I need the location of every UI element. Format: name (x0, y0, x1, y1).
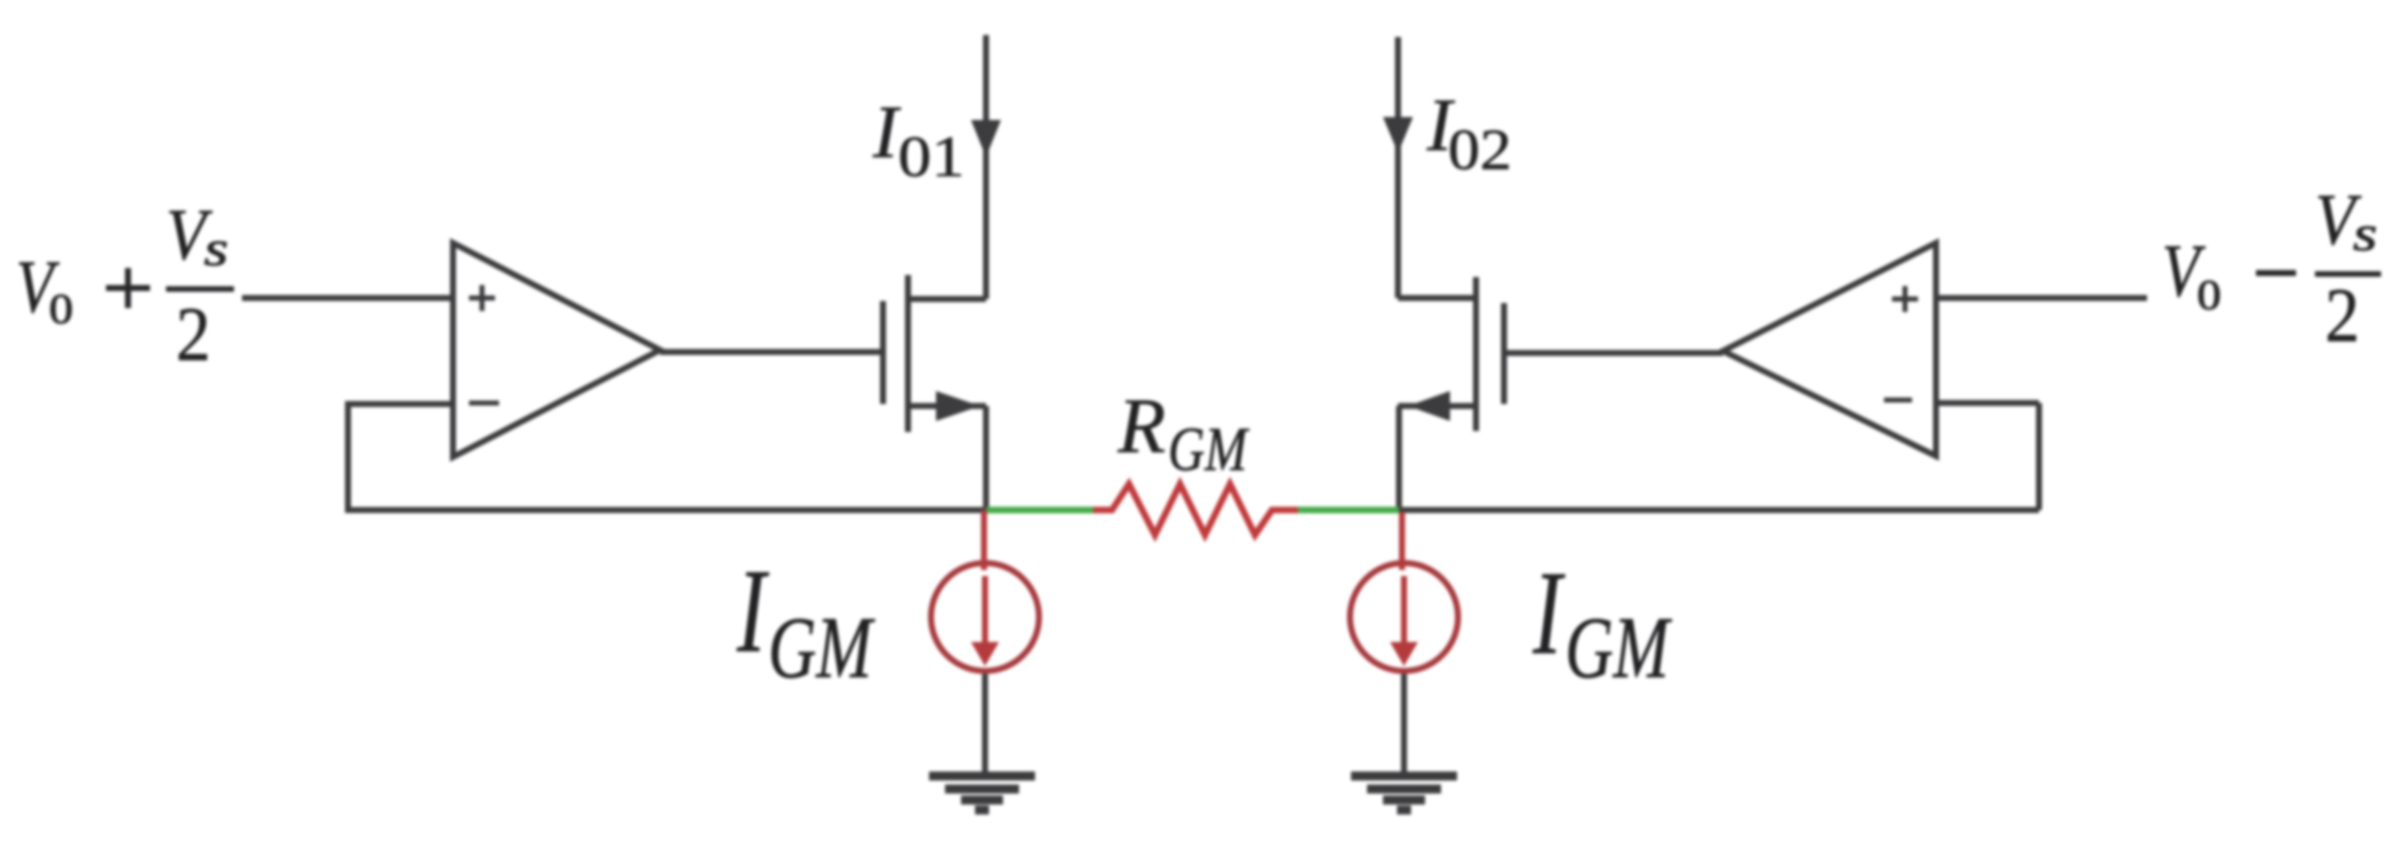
svg-text:02: 02 (1448, 119, 1512, 183)
svg-text:GM: GM (1565, 598, 1672, 696)
svg-text:s: s (2353, 207, 2377, 262)
svg-text:R: R (1117, 382, 1166, 469)
svg-text:I: I (1532, 546, 1565, 679)
svg-text:I: I (872, 91, 901, 174)
svg-text:GM: GM (1168, 415, 1250, 484)
svg-text:s: s (204, 222, 228, 277)
svg-text:2: 2 (2325, 273, 2360, 358)
svg-text:GM: GM (768, 598, 875, 696)
svg-text:01: 01 (898, 124, 965, 189)
svg-text:2: 2 (176, 292, 211, 377)
svg-text:I: I (736, 544, 769, 677)
svg-text:0: 0 (2197, 272, 2221, 318)
svg-text:0: 0 (49, 286, 73, 332)
